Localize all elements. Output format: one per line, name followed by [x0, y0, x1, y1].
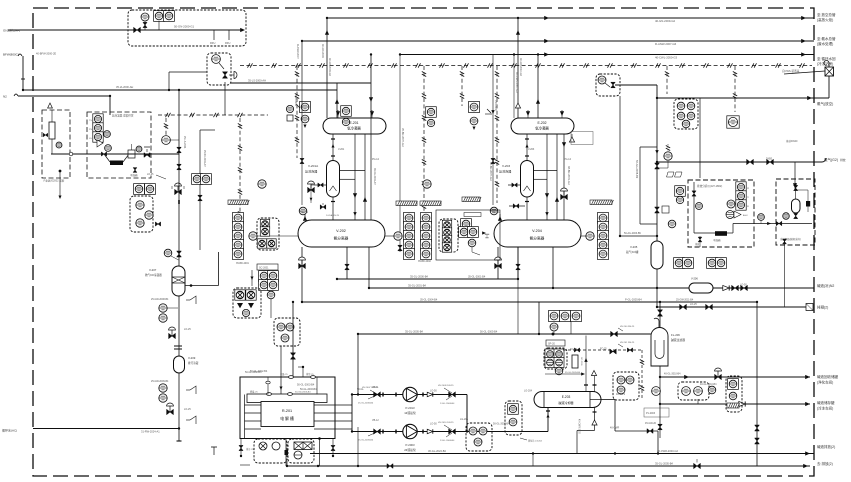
svg-text:LG-205: LG-205 [460, 418, 469, 421]
dryer pill in box B [128, 150, 135, 158]
svg-text:50-GD-2005-B4: 50-GD-2005-B4 [295, 392, 311, 394]
wire vent line y98 [657, 97, 829, 99]
wire E-203 out right [601, 399, 615, 401]
valve analyzer drain [698, 237, 702, 242]
svg-text:驰气KO冷凝器: 驰气KO冷凝器 [145, 273, 162, 277]
instrument pair V-209 [159, 384, 167, 392]
equipment dashed box E-2001 B [87, 112, 151, 178]
svg-text:(冷冻车间): (冷冻车间) [817, 406, 833, 411]
instrument cloud x726 y377 [726, 376, 742, 412]
svg-text:碱液过滤器: 碱液过滤器 [671, 338, 685, 342]
wire lye-storage y404 [660, 403, 810, 405]
instrument stack right of V-204 [598, 213, 609, 224]
valve x158 y224 [155, 222, 160, 226]
wire dashed sample loop [563, 349, 642, 351]
svg-text:碱液储存罐: 碱液储存罐 [817, 400, 835, 405]
wire pump discharge 1 [417, 394, 467, 396]
wire bottom lye y466 [287, 465, 810, 467]
wire E-203 shell CW out [594, 408, 596, 431]
instrument pair x680 y191 [675, 186, 686, 197]
svg-text:HV-201 DN-25: HV-201 DN-25 [620, 342, 635, 344]
svg-text:循环水(AC): 循环水(AC) [2, 428, 17, 433]
wire CW drop x514 [513, 55, 515, 119]
wire V-202 drain left [301, 247, 303, 302]
svg-text:40-GL-2010-B4: 40-GL-2010-B4 [664, 373, 681, 376]
svg-text:碱液(补)N2: 碱液(补)N2 [817, 283, 834, 288]
package unit cloud (vendor skid) top-left [128, 10, 246, 46]
valve PIC control valve [222, 72, 227, 78]
valve x657 y210 [655, 207, 660, 213]
svg-text:25-GL-2009-B4: 25-GL-2009-B4 [358, 440, 374, 442]
instrument LG left of V-202 [249, 232, 257, 240]
wire N2 line [14, 94, 18, 96]
equipment dashed box E-2002 A [42, 110, 70, 178]
hatched line tag bar 2 [396, 201, 417, 206]
wire E-202 drain b [546, 134, 548, 220]
svg-text:30-GL-2024-B4: 30-GL-2024-B4 [428, 449, 446, 453]
svg-text:氨气(放空): 氨气(放空) [817, 101, 833, 106]
svg-text:BFW(800C): BFW(800C) [3, 53, 19, 57]
svg-text:40-GN-2009: 40-GN-2009 [321, 44, 324, 58]
svg-text:氨洗涤器: 氨洗涤器 [499, 169, 511, 174]
wire y307 drain line [657, 306, 810, 308]
instrument V-207 top [164, 249, 172, 257]
wire V-204 drain right [552, 247, 554, 288]
instrument cloud XV mid [439, 219, 458, 252]
svg-text:P-2003: P-2003 [405, 443, 414, 447]
vessel sample bomb [792, 199, 801, 213]
instrument top circle x262 [258, 180, 266, 188]
svg-text:SP-20: SP-20 [548, 343, 556, 346]
instrument cloud PV x596 [596, 74, 620, 96]
node V-204 top nozzles [499, 214, 501, 220]
svg-text:DN50: DN50 [766, 158, 773, 161]
wire V-203 overhead [526, 134, 528, 161]
svg-text:40-CWS-2007-G2: 40-CWS-2007-G2 [515, 72, 519, 93]
instrument cloud below R-201 right [288, 439, 314, 463]
svg-text:氨洗涤器: 氨洗涤器 [305, 169, 317, 174]
equipment small column x572 [572, 355, 578, 368]
svg-text:HV-2010 DN-25: HV-2010 DN-25 [438, 422, 454, 424]
svg-text:至:氨水总管: 至:氨水总管 [817, 36, 836, 41]
valve R-201 blowdown right [332, 439, 334, 446]
wire cw supply line [33, 428, 179, 430]
svg-text:35-BR-2007-AH: 35-BR-2007-AH [401, 128, 405, 147]
instrument PI in skid [141, 13, 149, 21]
svg-text:P-2013: P-2013 [405, 406, 414, 410]
valve bottom x697 [694, 463, 701, 468]
svg-text:碱液冷却器: 碱液冷却器 [558, 400, 573, 405]
wire sample drop x586 [585, 336, 587, 375]
svg-text:HV-202: HV-202 [492, 211, 501, 214]
wire bomb right branch [796, 189, 808, 191]
wire pump discharge 2 [417, 431, 548, 433]
node V-201 cone bottom [332, 197, 334, 220]
wire V-202 liquid to R-201 [292, 302, 294, 377]
wire E-201 drain b [354, 134, 356, 220]
wire V-205 inlet y236 [620, 235, 657, 237]
column small in box A [49, 122, 55, 139]
instrument with horn in box B [104, 131, 111, 138]
equipment mid analyzer frame [436, 210, 500, 260]
svg-text:35-GL-2001-B4: 35-GL-2001-B4 [468, 276, 486, 279]
valve bomb drain [783, 239, 787, 244]
svg-text:40-CWL-2050-G3: 40-CWL-2050-G3 [655, 56, 678, 60]
control valve x178 y190 [175, 189, 182, 194]
svg-text:40-CWS: 40-CWS [616, 393, 625, 396]
instrument cloud x276 y318 [274, 318, 300, 346]
svg-text:氨分离器: 氨分离器 [334, 236, 349, 241]
svg-text:GN2(补)(AF): GN2(补)(AF) [3, 28, 20, 33]
svg-text:LO-25: LO-25 [147, 174, 154, 176]
wire condensate header y90 [23, 89, 337, 91]
svg-text:50-GL-2005-B4: 50-GL-2005-B4 [480, 331, 498, 334]
svg-text:氨冷凝器: 氨冷凝器 [535, 126, 549, 131]
tag box y341 [546, 340, 565, 346]
instrument pair x196 [192, 174, 203, 185]
svg-text:40-BFW-2000-2E: 40-BFW-2000-2E [36, 52, 56, 56]
heat-exchanger E-202 [511, 118, 574, 134]
wire x700 drop [699, 98, 701, 178]
svg-text:PSV-2001: PSV-2001 [294, 95, 297, 106]
wire V-204 drain mid [517, 247, 519, 279]
wire header CWL 2050 [400, 54, 814, 56]
svg-text:排凝(2): 排凝(2) [817, 305, 828, 310]
svg-text:35-GL-2005-B4: 35-GL-2005-B4 [655, 462, 673, 466]
instrument cloud PIC x209 [207, 53, 231, 85]
svg-text:V-204: V-204 [532, 229, 542, 233]
node RFU taps [213, 30, 215, 40]
wire FL-206 inlet [659, 302, 661, 328]
valve below V-209 [167, 409, 174, 414]
svg-text:FV-2003: FV-2003 [646, 412, 656, 415]
wire pump suction 2 [352, 431, 403, 433]
instrument circle x656 y391 [652, 387, 661, 396]
wire pump suction 1 [352, 394, 403, 396]
wire header GN 2009 (flare) [327, 17, 814, 19]
svg-text:25-LS-2001: 25-LS-2001 [183, 136, 186, 149]
svg-text:V-201A: V-201A [308, 164, 319, 168]
svg-text:自CWS-装置来: 自CWS-装置来 [782, 69, 800, 73]
wire drop to V-207 [178, 90, 180, 266]
instrument PI x668 [664, 152, 672, 160]
instrument column in box B [93, 114, 103, 124]
wire riser x371 to E-201 [370, 55, 372, 119]
node E-202 vent triangle [569, 137, 574, 142]
equipment R-201 outer box [240, 377, 335, 439]
svg-text:25-GW-2008-B4: 25-GW-2008-B4 [151, 298, 169, 301]
wire y288 lye line [369, 287, 814, 289]
svg-text:40-GN-2009-G2: 40-GN-2009-G2 [328, 58, 331, 77]
svg-text:至:放空总管: 至:放空总管 [817, 12, 836, 17]
svg-text:RFU: RFU [210, 41, 215, 45]
svg-text:V-207: V-207 [149, 268, 157, 272]
instrument below trio [550, 323, 558, 331]
svg-text:35-GL-2000-B4: 35-GL-2000-B4 [410, 275, 428, 279]
vessel V-203 ammonia scrubber [521, 161, 534, 198]
svg-text:干燥器: 干燥器 [130, 173, 138, 177]
instrument top circle x427 [423, 180, 431, 188]
svg-text:LO-50: LO-50 [430, 423, 437, 426]
svg-text:FL-206: FL-206 [671, 333, 680, 337]
valve flare seal pot [825, 67, 834, 76]
svg-text:VB-11: VB-11 [372, 386, 379, 389]
pump P-2013 [403, 387, 417, 401]
equipment dashed sample-bomb box [776, 179, 815, 245]
svg-text:SC-2001: SC-2001 [259, 267, 269, 270]
svg-text:LO-50: LO-50 [740, 284, 747, 287]
svg-text:45-GW-20: 45-GW-20 [645, 422, 657, 425]
svg-text:35-BD-2002: 35-BD-2002 [418, 260, 432, 263]
svg-text:去:排放(2): 去:排放(2) [817, 461, 833, 466]
node nozzle arrows E-202 [526, 111, 530, 116]
svg-text:50-GL-2003-B4: 50-GL-2003-B4 [297, 384, 315, 387]
svg-text:1#GL-2006-B4: 1#GL-2006-B4 [440, 403, 455, 405]
wire y302 lye line [302, 301, 757, 303]
wire steam line y83 [231, 82, 371, 84]
svg-text:V-206: V-206 [691, 277, 698, 281]
vessel V-204 ammonia separator [494, 220, 581, 247]
svg-text:V-202: V-202 [336, 229, 346, 233]
vessel V-207 KO drum [172, 266, 185, 296]
vent marks right2 [190, 386, 196, 394]
instrument circle x559 y371 [555, 367, 563, 375]
svg-text:V-205: V-205 [630, 245, 638, 249]
wire IA drop x424 [423, 66, 425, 248]
instrument 2x2 x264 [259, 271, 270, 282]
svg-text:40-GN-2010-G2: 40-GN-2010-G2 [519, 58, 522, 77]
svg-text:FO-25: FO-25 [570, 348, 577, 351]
svg-text:50-GN-2000-G1: 50-GN-2000-G1 [174, 25, 194, 29]
wire IA drop x735 [734, 66, 736, 112]
svg-text:35-DA-2001-AH: 35-DA-2001-AH [373, 168, 376, 185]
heat-exchanger E-203 [534, 392, 601, 408]
wire V-203 cone side drain [509, 205, 525, 207]
svg-text:1#液氨泵: 1#液氨泵 [404, 411, 416, 415]
svg-text:氨蒸发器 成套供货: 氨蒸发器 成套供货 [112, 114, 134, 118]
valve x564 y197 [561, 194, 568, 199]
wire IA subheader y115 [158, 114, 268, 116]
svg-text:VB-12: VB-12 [372, 419, 379, 422]
vessel V-201 ammonia scrubber [327, 161, 340, 198]
instrument cloud x131 y195 [130, 196, 153, 232]
equipment dashed analyzer box [688, 180, 754, 247]
wire E-202 riser to flare [517, 18, 519, 118]
wire GN2 header [8, 29, 243, 31]
svg-text:RFU: RFU [225, 41, 230, 45]
svg-text:FC-25: FC-25 [600, 348, 607, 351]
svg-text:汽化器-E2002 成套: 汽化器-E2002 成套 [43, 179, 65, 183]
valve above V-207 [177, 251, 182, 257]
wire y302 to border drop [756, 302, 758, 467]
svg-text:(净化车间): (净化车间) [817, 380, 833, 385]
node junction dots [326, 17, 328, 19]
instrument cloud x506 y403 [505, 401, 522, 435]
instrument pair x431 [426, 107, 437, 118]
wire bottom collect y453 [310, 453, 814, 455]
instrument trio boxes [549, 311, 560, 322]
valve x311 y190 [308, 187, 315, 192]
svg-text:排放分析仪(AIT-1802): 排放分析仪(AIT-1802) [697, 184, 722, 188]
instrument circle x166 y140 [162, 136, 171, 145]
svg-text:氨冷凝器: 氨冷凝器 [347, 126, 361, 131]
svg-text:35-IA-2000-AH: 35-IA-2000-AH [116, 85, 133, 89]
node nozzle arrows E-201 [336, 111, 340, 116]
instrument LG right of V-202 [394, 232, 402, 240]
svg-text:E-201: E-201 [349, 121, 358, 125]
wire PV cloud drop x620 [619, 96, 621, 236]
heater black in box B [110, 161, 123, 166]
instrument cloud XV left of V-202 [257, 218, 279, 250]
relief PSV cluster at E-201 [300, 102, 311, 113]
equipment R-201 header box [247, 394, 327, 403]
wire IA drop x462 [461, 66, 463, 106]
instrument pair V-207 [159, 304, 167, 312]
svg-text:ASU: ASU [743, 214, 748, 217]
svg-text:HV-2009 DN-25: HV-2009 DN-25 [438, 385, 454, 387]
instrument analyzer horn [726, 211, 734, 219]
wire trio drop [697, 399, 699, 404]
wire R-201 bottom drops [285, 439, 287, 467]
svg-text:50-AG-2008-B9: 50-AG-2008-B9 [635, 160, 639, 179]
leader notes pumps 2 [444, 425, 452, 430]
svg-text:排污冷凝: 排污冷凝 [188, 361, 199, 365]
valve V-207 drain [169, 333, 176, 338]
svg-text:V-203: V-203 [528, 148, 535, 151]
wire E-201 drain d [370, 118, 372, 220]
wire vent main vertical x657 [656, 98, 658, 241]
wire V-202 drain mid [346, 247, 348, 279]
wire E-201 drain c [364, 134, 366, 220]
wire IA drop x667 [666, 66, 668, 94]
wire FL-206 outlet [659, 366, 661, 377]
node DN class flags [667, 172, 683, 177]
svg-text:2#液氨泵: 2#液氨泵 [404, 448, 416, 452]
svg-text:R-ANW-2007: R-ANW-2007 [296, 44, 299, 59]
instrument LG left of V-204 [486, 235, 488, 237]
svg-text:LO-25: LO-25 [690, 303, 697, 306]
wire riser x302 [301, 41, 303, 83]
wire PIC valve drop [224, 82, 226, 115]
svg-text:V-203: V-203 [502, 164, 510, 168]
instrument cloud x674 y99 [674, 99, 698, 129]
wire drop x200 [199, 130, 201, 250]
svg-text:40-BR-2007-AH: 40-BR-2007-AH [489, 162, 493, 181]
wire V-204 drain left [497, 247, 499, 279]
svg-text:V-201: V-201 [338, 148, 345, 151]
svg-text:31-RW-2024-A1: 31-RW-2024-A1 [141, 430, 160, 434]
node R-201 top fittings [289, 376, 294, 379]
svg-text:PG-12: PG-12 [372, 158, 380, 161]
wire process y154 left [51, 153, 179, 155]
valves on x179 [177, 147, 181, 153]
instrument stack LI left of V-202 [233, 213, 244, 224]
wire y162 ammonia line [657, 161, 822, 163]
wire header ANW 2007 [302, 40, 814, 42]
wire analyzer sample left [693, 182, 695, 233]
valve y288 pair [732, 285, 739, 290]
wire E-203 top stubs [585, 374, 587, 392]
wire V-201 side tees [340, 169, 366, 171]
hatched line tag bar 1 [228, 200, 248, 205]
relief PSV cluster at E-202 [469, 102, 480, 113]
filter FL-206 [651, 328, 668, 367]
svg-text:25-GW-2009-B4: 25-GW-2009-B4 [151, 380, 169, 383]
svg-text:40-CWR-2003-G2: 40-CWR-2003-G2 [657, 449, 678, 453]
equipment dryer black [715, 231, 727, 236]
svg-text:2#GL-2006-B4: 2#GL-2006-B4 [440, 440, 455, 442]
svg-text:PSV-2004: PSV-2004 [494, 100, 497, 111]
instrument stack mid C [461, 219, 472, 230]
svg-text:干燥器: 干燥器 [713, 238, 721, 242]
equipment R-201 core box [261, 402, 314, 427]
svg-text:40-GL-2010-B4: 40-GL-2010-B4 [700, 383, 717, 386]
instrument cloud XV x233 [233, 288, 261, 318]
svg-text:LO-25: LO-25 [184, 408, 191, 411]
svg-text:N2: N2 [3, 95, 7, 99]
svg-text:35-GL-2005-B4: 35-GL-2005-B4 [405, 330, 423, 334]
instrument pair KO a [674, 258, 685, 269]
vessel V-206 pot [689, 283, 713, 293]
wire sample main y223 [733, 223, 812, 225]
wire V-201 overhead [332, 134, 334, 161]
wire y334 line [358, 333, 651, 335]
hatched line tag bar 3 [420, 201, 441, 206]
wire x302 extension [301, 83, 303, 205]
svg-text:50-AG-2006-B9: 50-AG-2006-B9 [624, 232, 641, 235]
valve box B outlet [144, 153, 150, 158]
hatched line tag bar 5 [590, 200, 612, 205]
svg-text:R-ANW-2007-G6: R-ANW-2007-G6 [655, 42, 677, 46]
wire y279 lye line [337, 278, 518, 280]
svg-text:氨气KO罐: 氨气KO罐 [626, 250, 639, 254]
wire CWS slant [784, 71, 825, 74]
instrument stack mid A [404, 213, 415, 224]
instrument column analyzer [736, 182, 746, 192]
valve on GN2 line [134, 27, 141, 32]
instrument PI x672 y224 [668, 220, 676, 228]
heat-exchanger E-201 [323, 118, 386, 134]
wire CW drop x400 [399, 55, 401, 253]
instrument pair x346 [341, 106, 352, 117]
svg-text:25-GL-2008-B4: 25-GL-2008-B4 [358, 403, 374, 405]
valve V-201 drain [320, 205, 326, 209]
svg-text:PG-14: PG-14 [564, 158, 572, 161]
svg-text:LO-25: LO-25 [184, 328, 191, 331]
hatched line tag bar 4 [462, 197, 480, 202]
wire y286 through V-206 [657, 287, 689, 289]
wire x493 drop [492, 55, 494, 206]
svg-text:E-203: E-203 [562, 395, 571, 399]
wire sample line y374 [545, 373, 583, 375]
wire IA drop x297 [296, 66, 298, 158]
valve under bomb [794, 213, 798, 218]
vessel V-202 ammonia separator [298, 220, 385, 247]
svg-text:排放: 排放 [840, 158, 846, 162]
vessel V-205 KO drum [651, 241, 663, 269]
svg-text:50-GL-2003-B4: 50-GL-2003-B4 [300, 388, 317, 391]
wire V-201 left stub [314, 184, 327, 186]
vent marks right [190, 296, 196, 304]
svg-text:25-GW-2011-B4: 25-GW-2011-B4 [676, 299, 694, 302]
svg-text:35-GL-2001-B4: 35-GL-2001-B4 [408, 284, 426, 288]
svg-text:HV-200 DN-25: HV-200 DN-25 [620, 326, 635, 328]
wire instrument-air header (dashed) [240, 65, 812, 67]
wire V-207 side outlet [185, 285, 219, 287]
svg-text:R-201: R-201 [282, 409, 292, 413]
wire into PIC cloud [168, 72, 170, 90]
wire V-202 drain right [368, 247, 370, 288]
